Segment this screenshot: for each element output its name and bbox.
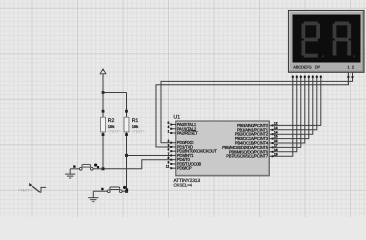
svg-text:19: 19 [274,152,278,156]
pin 8 PD4/T0 [171,159,176,161]
wire PB2 to display segment column 6 [269,75,313,134]
svg-text:16: 16 [274,139,278,143]
pin 3 PD1/TXD [171,146,176,148]
display pin pad 7 [316,76,318,78]
wire VCC stem [102,74,104,93]
svg-text:CKSEL=4: CKSEL=4 [174,182,193,187]
svg-text:ABCDEFG: ABCDEFG [293,64,311,69]
wire PB6 to display segment column 2 [269,75,297,152]
svg-text:PB7/USCK/SCL/PCINT7: PB7/USCK/SCL/PCINT7 [226,154,268,159]
display pin pad 8 [320,76,322,78]
wire junction to pin 7 PD3/INT1 [127,154,172,156]
svg-text:PA2/RESET: PA2/RESET [177,131,198,136]
display pin pad 2 (digit) [352,76,354,78]
pin 4 PA1/XTAL2 [171,128,176,130]
ground (button 1) [69,169,71,174]
pin 13 PB1/AIN1/PCINT1 [272,129,274,131]
pin 1 PA2/RESET [171,132,176,134]
pin 19 PB7/USCK/SCL/PCINT7 [272,155,274,157]
button 2 (lower push button) [93,190,107,192]
display pin pad 4 [304,76,306,78]
wire button1 to pin 8 PD4/T0 staircase [103,160,171,169]
wire display pin 2 stub [352,72,354,81]
svg-text:12: 12 [274,122,278,126]
display pin pad 1 [292,76,294,78]
display pin pad 6 [312,76,314,78]
pin 6 PD2/INT0/XCK/CKOUT [171,150,176,152]
svg-text:17: 17 [274,144,278,148]
svg-text:10k: 10k [108,124,115,129]
IC U1 ATTINY2313 [176,121,269,176]
pin 18 PB6/MISO/DO/PCINT6 [272,151,274,153]
wire R1 column to button2 [126,155,128,191]
display pin pad 2 [296,76,298,78]
wire PB5 to display segment column 3 [269,75,301,147]
wire R1 top drop [126,93,128,118]
svg-text:PD6/ICP: PD6/ICP [177,166,192,171]
resistor R1 [124,117,129,132]
svg-text:DP: DP [315,64,321,69]
node R2 / button1 junction [102,167,105,170]
ground (button 2) [92,191,94,198]
svg-text:<TEXT>: <TEXT> [18,188,32,192]
display pin pad 1 (digit) [347,76,349,78]
wire VCC split to R1 [103,92,127,94]
wire R1 bottom to junction [126,132,128,156]
svg-text:10k: 10k [132,124,139,129]
node VCC junction [102,91,105,94]
wire PB0 to display segment column 8 [269,75,321,125]
wire digit1 horizontal [161,72,353,142]
svg-text:U1: U1 [174,115,181,121]
svg-text:11: 11 [166,165,170,169]
wire PB7 to display segment column 1 [269,75,293,156]
svg-text:15: 15 [274,135,278,139]
node R1 / button2 junction [125,190,128,193]
wire PB1 to display segment column 7 [269,75,317,130]
pin 9 PD5/T1/OC0B [171,163,176,165]
pin 14 PB2/OC0A/PCINT2 [272,133,274,135]
button 1 (upper push button) [70,168,79,170]
node R1 / PD3 junction [125,154,128,157]
decimal point digit 2 [353,55,355,57]
svg-text:<TEXT>: <TEXT> [108,130,121,134]
power VCC arrow [100,69,106,74]
svg-text:14: 14 [274,130,278,134]
display pin pad 3 [300,76,302,78]
svg-text:<TEXT>: <TEXT> [132,130,145,134]
svg-text:13: 13 [274,126,278,130]
resistor R2 [101,117,106,132]
pin 17 PB5/MOSI/DI/SDA/PCINT5 [272,146,274,148]
svg-text:1: 1 [168,129,170,133]
svg-text:18: 18 [274,148,278,152]
wire display pin 1 stub [347,72,349,85]
pin 15 PB3/OC1A/PCINT3 [272,138,274,140]
wire PB3 to display segment column 5 [269,75,309,139]
wire R2 bottom to button1 [102,132,104,169]
pin 16 PB4/OC1B/PCINT4 [272,142,274,144]
pin 5 PA0/XTAL1 [171,124,176,126]
wire PB4 to display segment column 4 [269,75,305,143]
digit 1 (segments A B D E F G) [304,22,318,26]
display pin pad 5 [308,76,310,78]
wire R2 column [102,93,104,118]
pin 11 PD6/ICP [171,167,176,169]
pin 7 PD3/INT1 [171,154,176,156]
7-segment display module [289,11,365,73]
wire digit2 horizontal [156,72,348,147]
decimal point digit 1 [322,55,324,57]
pin 12 PB0/AIN0/PCINT0 [272,124,274,126]
digit 2 (segments A B C E F G) [335,22,349,26]
pin 2 PD0/RXD [171,142,176,144]
